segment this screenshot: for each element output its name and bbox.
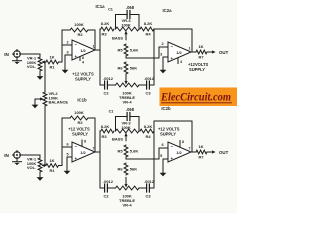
svg-text:IC1b: IC1b — [77, 98, 87, 103]
wiper of VR-3 (lower) — [124, 133, 127, 141]
svg-text:OUT: OUT — [219, 50, 229, 55]
resistor R5 5.6K (lower) — [117, 145, 138, 157]
svg-text:BASS: BASS — [112, 35, 123, 40]
op-amp U1a (IC1a 1/2) — [72, 40, 95, 60]
svg-text:R3: R3 — [101, 134, 107, 139]
svg-text:1K: 1K — [49, 158, 54, 163]
svg-text:SUPPLY: SUPPLY — [189, 67, 205, 72]
svg-text:1K: 1K — [198, 44, 203, 49]
ground — [37, 175, 44, 181]
svg-text:1/2: 1/2 — [176, 50, 182, 55]
potentiometer VR-4 100K TREBLE — [116, 83, 140, 105]
svg-text:OUT: OUT — [219, 150, 229, 155]
op-amp U2a label — [162, 8, 172, 13]
potentiometer VR-3 100K BASS (lower) — [116, 121, 140, 133]
svg-text:IN: IN — [4, 52, 9, 57]
svg-text:1: 1 — [189, 46, 191, 50]
label BASS — [112, 136, 123, 141]
wire — [59, 45, 63, 62]
svg-text:−: − — [75, 42, 78, 47]
capacitor C3 .0012 — [139, 76, 155, 95]
wire — [39, 71, 41, 74]
svg-text:R3: R3 — [101, 31, 107, 36]
svg-text:C1: C1 — [109, 110, 114, 114]
svg-text:VOL.: VOL. — [27, 64, 36, 69]
wire — [88, 30, 95, 50]
wire — [88, 118, 95, 152]
node line (driven node, lower) — [99, 131, 101, 188]
label +12 volts supply — [72, 72, 94, 82]
pin 4 (supply stub) — [178, 58, 182, 64]
wiper of VR-4 (lower treble) — [124, 177, 127, 187]
svg-text:IC2b: IC2b — [161, 106, 171, 111]
pin 1 (U2a output) — [189, 46, 197, 52]
svg-text:IC1a: IC1a — [95, 4, 105, 9]
resistor R7 1K — [196, 44, 207, 60]
node OUT (top) — [208, 50, 229, 55]
svg-text:4: 4 — [82, 61, 84, 65]
pin 7 (U1b output) — [93, 147, 101, 153]
pin 6 — [159, 143, 168, 148]
svg-text:R4: R4 — [145, 134, 151, 139]
svg-text:R6: R6 — [117, 66, 123, 71]
svg-text:1K: 1K — [198, 144, 203, 149]
node OUT (bottom) — [208, 150, 229, 155]
svg-text:7: 7 — [93, 147, 95, 151]
svg-text:SUPPLY: SUPPLY — [72, 132, 88, 137]
ground — [37, 74, 44, 80]
svg-text:+: + — [171, 156, 174, 161]
label +12 volts supply — [68, 127, 90, 137]
ground — [13, 160, 22, 165]
svg-text:R7: R7 — [198, 154, 204, 159]
wire — [158, 148, 160, 159]
resistor R1 1K (lower) — [46, 158, 59, 173]
wire (feedback) — [154, 29, 192, 52]
svg-text:5: 5 — [66, 153, 68, 157]
svg-text:5: 5 — [160, 154, 162, 158]
label +12 volts supply — [188, 62, 209, 72]
resistor R5 5.6K — [117, 44, 138, 56]
wire (balance to lower channel) — [44, 106, 46, 166]
resistor R1 1K — [46, 54, 59, 69]
svg-text:VOL.: VOL. — [27, 165, 36, 170]
svg-text:BASS: BASS — [112, 136, 123, 141]
resistor R4 8.2K — [140, 21, 154, 36]
op-amp U1b (IC1b 1/2) — [72, 142, 95, 162]
svg-text:3: 3 — [66, 51, 68, 55]
input jack J2 — [13, 151, 22, 160]
svg-text:VR-4: VR-4 — [122, 203, 132, 208]
wire (balance tap) — [44, 62, 46, 92]
svg-text:R6: R6 — [117, 167, 123, 172]
op-amp U2b (IC2b 1/2) — [168, 142, 191, 162]
wire — [62, 118, 70, 147]
svg-text:5.6K: 5.6K — [130, 149, 139, 154]
resistor R2 100K (lower) — [70, 110, 88, 125]
wiper of VR-1 (lower) — [42, 164, 47, 167]
svg-text:−: − — [171, 144, 174, 149]
wire (R5/R6 junction to U2a) — [126, 56, 159, 58]
wire — [62, 30, 70, 45]
node IN (bottom input label) — [4, 153, 9, 158]
node line (feedback node, lower) — [153, 121, 155, 188]
logo ElecCircuit.com — [160, 88, 238, 107]
svg-text:IN: IN — [4, 153, 9, 158]
svg-text:R4: R4 — [145, 31, 151, 36]
resistor R2 100K — [70, 22, 88, 37]
svg-text:C3: C3 — [145, 193, 151, 198]
wire (feedback, lower) — [154, 121, 192, 152]
svg-text:+: + — [75, 54, 78, 59]
ground — [62, 67, 69, 73]
resistor R7 1K (lower) — [196, 144, 207, 160]
svg-text:−: − — [171, 44, 174, 49]
wire (junction to U2b) — [126, 157, 159, 159]
wiper of VR-4 (treble) — [124, 74, 127, 84]
svg-text:5.6K: 5.6K — [130, 48, 139, 53]
svg-text:VR-4: VR-4 — [122, 100, 132, 105]
ground — [32, 102, 39, 108]
potentiometer VR-1 100K VOL (lower) — [27, 157, 42, 173]
svg-text:56K: 56K — [130, 167, 137, 172]
svg-text:SUPPLY: SUPPLY — [75, 77, 91, 82]
wire — [162, 57, 164, 67]
svg-text:100K: 100K — [121, 22, 131, 27]
svg-text:4: 4 — [180, 60, 182, 64]
svg-text:BALANCE: BALANCE — [49, 100, 69, 105]
resistor R4 8.2K (lower) — [140, 124, 154, 139]
ground — [64, 168, 71, 174]
wiper of VR-2 — [35, 97, 44, 102]
svg-text:.0012: .0012 — [144, 76, 155, 81]
svg-text:R2: R2 — [77, 32, 83, 37]
resistor R3 8.2K — [101, 21, 114, 36]
svg-text:R5: R5 — [117, 149, 123, 154]
pin 1 (U1a output) — [93, 44, 101, 50]
svg-text:C2: C2 — [103, 193, 109, 198]
label +12 volts supply — [158, 127, 180, 137]
svg-text:56K: 56K — [130, 66, 137, 71]
pin 5 — [160, 154, 168, 159]
capacitor C1 .068 — [108, 5, 139, 29]
op-amp U2a (IC2a 1/2) — [168, 42, 191, 62]
potentiometer VR-3 100K BASS — [116, 18, 140, 31]
svg-text:2: 2 — [162, 42, 164, 46]
svg-text:.0012: .0012 — [103, 179, 114, 184]
pin 5 — [66, 153, 72, 157]
svg-text:R2: R2 — [77, 120, 83, 125]
svg-text:8.2K: 8.2K — [101, 124, 110, 129]
resistor R3 8.2K (lower) — [101, 124, 114, 139]
svg-text:7: 7 — [189, 147, 191, 151]
svg-text:.0012: .0012 — [103, 76, 114, 81]
wiper of VR-3 (bass) — [124, 31, 127, 40]
node line (feedback node) — [153, 29, 155, 85]
svg-text:.068: .068 — [126, 107, 135, 112]
svg-text:+: + — [75, 156, 78, 161]
svg-text:ElecCircuit.com: ElecCircuit.com — [160, 92, 231, 104]
wire — [64, 55, 66, 67]
svg-text:8: 8 — [182, 140, 184, 144]
pin 7 (U2b output) — [189, 147, 197, 153]
resistor R6 56K (lower) — [117, 163, 137, 175]
svg-text:R1: R1 — [49, 65, 55, 70]
svg-text:8: 8 — [82, 56, 84, 60]
pin 3 — [160, 53, 168, 57]
svg-text:1: 1 — [93, 44, 95, 48]
svg-text:100K: 100K — [121, 125, 131, 130]
pin 2 — [62, 41, 72, 45]
svg-text:R1: R1 — [49, 168, 55, 173]
input jack J1 — [13, 50, 22, 59]
svg-text:−: − — [75, 144, 78, 149]
pin 3 — [65, 51, 72, 55]
wire — [162, 159, 164, 170]
capacitor C2 .0012 — [100, 76, 116, 95]
svg-text:100K: 100K — [74, 110, 84, 115]
svg-text:.068: .068 — [126, 5, 135, 10]
capacitor C3 .0012 (lower) — [139, 179, 155, 198]
resistor R6 56K — [117, 62, 137, 74]
op-amp U1b label — [77, 98, 87, 103]
svg-text:8.2K: 8.2K — [144, 124, 153, 129]
wire — [158, 47, 160, 58]
pin 6 — [62, 143, 72, 147]
ground — [13, 59, 22, 64]
svg-text:1/2: 1/2 — [80, 48, 86, 53]
svg-text:100K: 100K — [74, 22, 84, 27]
svg-text:8.2K: 8.2K — [144, 21, 153, 26]
svg-text:6: 6 — [162, 143, 164, 147]
svg-text:C1: C1 — [108, 8, 113, 12]
svg-text:1K: 1K — [49, 54, 54, 59]
op-amp U1a label — [95, 4, 105, 9]
svg-text:+: + — [171, 56, 174, 61]
op-amp U2b label — [161, 106, 171, 111]
wire — [59, 147, 63, 166]
wire — [66, 157, 68, 168]
svg-text:C3: C3 — [145, 90, 151, 95]
pin 8 (supply stub) — [82, 140, 86, 147]
svg-text:3: 3 — [160, 53, 162, 57]
svg-text:8.2K: 8.2K — [101, 21, 110, 26]
node IN (top input label) — [4, 52, 9, 57]
svg-text:IC2a: IC2a — [162, 8, 172, 13]
label BASS — [112, 35, 123, 40]
wire — [22, 54, 40, 57]
wiper of VR-1 — [42, 60, 47, 63]
svg-text:R7: R7 — [198, 54, 204, 59]
capacitor C1 .068 (lower) — [109, 107, 139, 131]
pin 2 — [159, 42, 168, 47]
svg-text:1/2: 1/2 — [176, 150, 182, 155]
svg-text:2: 2 — [66, 41, 68, 45]
pins 8 4 (supply stubs) — [80, 56, 84, 65]
potentiometer VR-1 100K VOL — [27, 56, 42, 72]
ground — [160, 170, 167, 176]
potentiometer VR-2 100K BALANCE — [43, 91, 68, 106]
pin 8 (supply stub) — [180, 140, 184, 147]
potentiometer VR-4 100K TREBLE (lower) — [116, 186, 140, 208]
wire — [39, 172, 41, 175]
svg-text:C2: C2 — [103, 90, 109, 95]
svg-text:R5: R5 — [117, 48, 123, 53]
capacitor C2 .0012 (lower) — [100, 179, 116, 198]
svg-text:8: 8 — [84, 140, 86, 144]
wire — [22, 155, 40, 158]
svg-text:1/2: 1/2 — [80, 150, 86, 155]
node line (driven node) — [99, 29, 101, 85]
svg-text:SUPPLY: SUPPLY — [160, 132, 176, 137]
svg-text:6: 6 — [66, 143, 68, 147]
svg-text:.0012: .0012 — [144, 179, 155, 184]
ground — [160, 67, 167, 73]
